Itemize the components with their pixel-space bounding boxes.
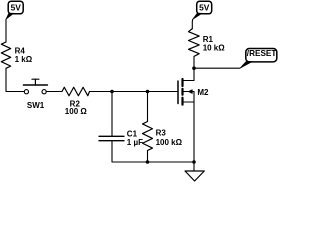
wire junction to M2 drain [184, 68, 195, 80]
wire to ground symbol [193, 162, 195, 171]
wire SW1 to R2 [46, 91, 62, 93]
power flag +5V (right) [193, 1, 212, 19]
junction node (R3 branch) [146, 90, 150, 94]
switch SW1 (pushbutton) [23, 79, 47, 110]
svg-text:SW1: SW1 [27, 101, 45, 110]
wire R3 bottom to ground rail [147, 151, 149, 163]
junction node (R1 / drain / RESET) [192, 66, 196, 70]
wire R2 to M2 gate [90, 91, 178, 93]
wire junction to C1 top [111, 92, 113, 137]
svg-text:1 kΩ: 1 kΩ [15, 55, 33, 64]
power flag +5V (left) [6, 1, 23, 19]
svg-text:1 µF: 1 µF [127, 138, 143, 147]
net flag /RESET [240, 49, 277, 69]
resistor R2 [62, 87, 90, 116]
junction node (C1 branch) [110, 90, 114, 94]
wire C1 bottom to ground rail [112, 141, 148, 162]
wire R1 bottom to junction [193, 56, 195, 68]
wire ground rail to M2 source [148, 161, 195, 163]
resistor R1 [189, 29, 226, 57]
svg-text:5V: 5V [11, 3, 22, 13]
wire 5V flag to R1 top [191, 19, 194, 28]
wire junction to R3 top [147, 92, 149, 122]
transistor M2 (NMOS) [178, 79, 209, 105]
resistor R4 [1, 42, 32, 68]
svg-text:100 Ω: 100 Ω [65, 107, 88, 116]
resistor R3 [143, 122, 183, 151]
svg-text:100 kΩ: 100 kΩ [156, 138, 183, 147]
capacitor C1 [99, 130, 143, 148]
svg-text:R3: R3 [156, 129, 167, 138]
ground [185, 171, 204, 181]
svg-text:10 kΩ: 10 kΩ [203, 43, 226, 52]
wire junction to /RESET flag [194, 67, 240, 69]
svg-text:5V: 5V [199, 3, 210, 13]
junction node (R3 / ground rail) [146, 160, 150, 164]
svg-text:/RESET: /RESET [247, 49, 277, 58]
svg-text:M2: M2 [197, 88, 209, 97]
wire M2 source to ground [193, 102, 195, 162]
wire R4 bottom to SW1 [6, 68, 24, 91]
junction node (source / ground rail) [192, 160, 196, 164]
wire 5V flag to R4 top [5, 19, 7, 42]
